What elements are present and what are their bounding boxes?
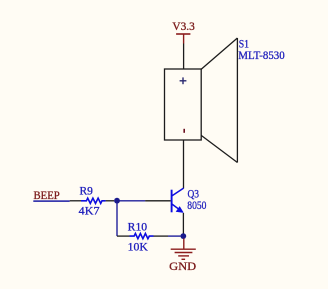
- svg-text:8050: 8050: [187, 200, 206, 212]
- svg-text:R10: R10: [128, 222, 148, 234]
- svg-text:R9: R9: [80, 186, 94, 198]
- svg-text:V3.3: V3.3: [172, 21, 195, 33]
- svg-text:4K7: 4K7: [79, 206, 100, 218]
- svg-text:MLT-8530: MLT-8530: [238, 50, 285, 62]
- svg-text:10K: 10K: [128, 242, 149, 254]
- svg-text:GND: GND: [169, 261, 196, 273]
- svg-text:BEEP: BEEP: [34, 190, 60, 202]
- svg-text:S1: S1: [239, 39, 250, 51]
- svg-text:Q3: Q3: [188, 189, 200, 201]
